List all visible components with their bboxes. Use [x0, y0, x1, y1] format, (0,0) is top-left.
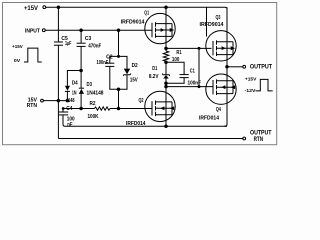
svg-text:+15V: +15V	[245, 76, 257, 82]
output rtn line wire	[58, 138, 242, 140]
svg-text:Q2: Q2	[139, 98, 144, 104]
output waveform symbol	[256, 79, 273, 91]
svg-text:Q3: Q3	[216, 15, 221, 21]
transistor Q1 IRFD9014	[145, 13, 175, 43]
svg-text:1µF: 1µF	[65, 41, 71, 47]
input waveform symbol	[24, 48, 42, 62]
wire stub q3 left	[206, 7, 208, 36]
OUTPUT terminal	[227, 66, 243, 68]
zener D2 15V	[119, 56, 131, 89]
wire Q4 source to bottom rail	[224, 67, 227, 126]
resistor R1 100	[163, 51, 168, 62]
svg-text:nF: nF	[67, 122, 72, 128]
svg-text:100: 100	[172, 57, 179, 63]
svg-text:-12V: -12V	[245, 88, 257, 94]
node R2 line at C2/D2 drop	[117, 107, 121, 111]
transistor Q4 IRFD014	[206, 74, 236, 104]
svg-text:D3: D3	[87, 82, 93, 88]
capacitor C1	[166, 62, 189, 83]
border frame	[3, 3, 277, 145]
svg-text:D2: D2	[132, 63, 138, 69]
node input at C3	[79, 28, 83, 32]
wire C2/D2 bottom drop	[117, 87, 121, 91]
svg-text:+15V: +15V	[24, 5, 39, 12]
capacitor C2	[105, 56, 118, 89]
svg-text:Q1: Q1	[144, 10, 149, 16]
wire C2/D2 tap	[118, 30, 120, 56]
transistor Q2 IRFD014	[145, 91, 175, 121]
svg-text:D4: D4	[72, 80, 78, 86]
svg-text:1N: 1N	[72, 91, 77, 97]
bottom rail wire	[65, 125, 227, 127]
node on rail at C5	[57, 5, 61, 9]
input line wire	[45, 29, 152, 31]
node Q1 drain / Q3 gate wire	[164, 47, 168, 51]
svg-text:C4: C4	[66, 106, 72, 112]
node Q2 source at bottom rail	[164, 124, 168, 128]
node RTN at C5	[57, 99, 61, 103]
node C1 return	[164, 81, 168, 85]
wire node to D4	[67, 71, 81, 86]
wire left vertical to output rtn line	[57, 101, 59, 139]
capacitor C5	[54, 7, 63, 100]
15V RTN terminal	[41, 99, 44, 102]
svg-text:OUTPUT: OUTPUT	[250, 64, 272, 71]
svg-text:15V: 15V	[130, 77, 138, 83]
transistor Q3 IRFD9014	[206, 31, 236, 61]
capacitor C3	[77, 30, 86, 70]
INPUT terminal	[42, 29, 45, 32]
node on rail at Q1	[164, 5, 168, 9]
node R1 bottom / C1 tap	[164, 60, 168, 64]
zener D1 8.2V	[162, 62, 170, 91]
node RTN at D4	[66, 99, 70, 103]
node C3 bottom	[79, 69, 83, 73]
svg-text:Q4: Q4	[216, 107, 221, 113]
svg-text:100K: 100K	[88, 114, 99, 120]
node gate bus tap	[164, 85, 168, 89]
+15V rail wire	[46, 7, 227, 30]
wire Q1 drain node to Q3 gate	[166, 47, 212, 49]
diode D3 1N4148	[79, 71, 84, 109]
+15V terminal	[43, 6, 46, 9]
OUTPUT RTN terminal	[243, 137, 246, 140]
svg-text:0V: 0V	[14, 58, 21, 64]
svg-text:4148: 4148	[66, 98, 75, 104]
svg-text:8.2V: 8.2V	[149, 74, 159, 80]
svg-text:D1: D1	[152, 66, 157, 72]
R2 gate line wire	[63, 108, 95, 110]
capacitor C4	[59, 109, 68, 127]
svg-text:+15V: +15V	[12, 44, 23, 50]
svg-text:C3: C3	[85, 36, 92, 42]
resistor R2 100K	[95, 107, 111, 110]
svg-text:100nF: 100nF	[188, 80, 202, 86]
gate bus wire to Q4	[166, 86, 214, 88]
svg-text:R1: R1	[176, 50, 181, 56]
svg-text:IRFD9014: IRFD9014	[200, 22, 224, 28]
diode D4 1N4148	[65, 86, 70, 101]
node output	[225, 65, 229, 69]
svg-text:IRFD014: IRFD014	[126, 121, 146, 127]
svg-text:1N4148: 1N4148	[87, 91, 104, 97]
node R2 line at D3	[79, 107, 83, 111]
svg-text:RTN: RTN	[27, 103, 38, 109]
node input at C2/D2	[117, 28, 121, 32]
svg-text:INPUT: INPUT	[25, 29, 41, 35]
svg-text:RTN: RTN	[254, 136, 264, 143]
svg-text:R2: R2	[90, 101, 96, 107]
gate bus vertical	[198, 48, 200, 86]
svg-text:470nF: 470nF	[88, 43, 101, 49]
svg-text:IRFD9014: IRFD9014	[121, 20, 145, 26]
svg-text:100nF: 100nF	[97, 60, 109, 66]
svg-text:IRFD014: IRFD014	[199, 115, 219, 121]
svg-text:C1: C1	[190, 68, 195, 74]
